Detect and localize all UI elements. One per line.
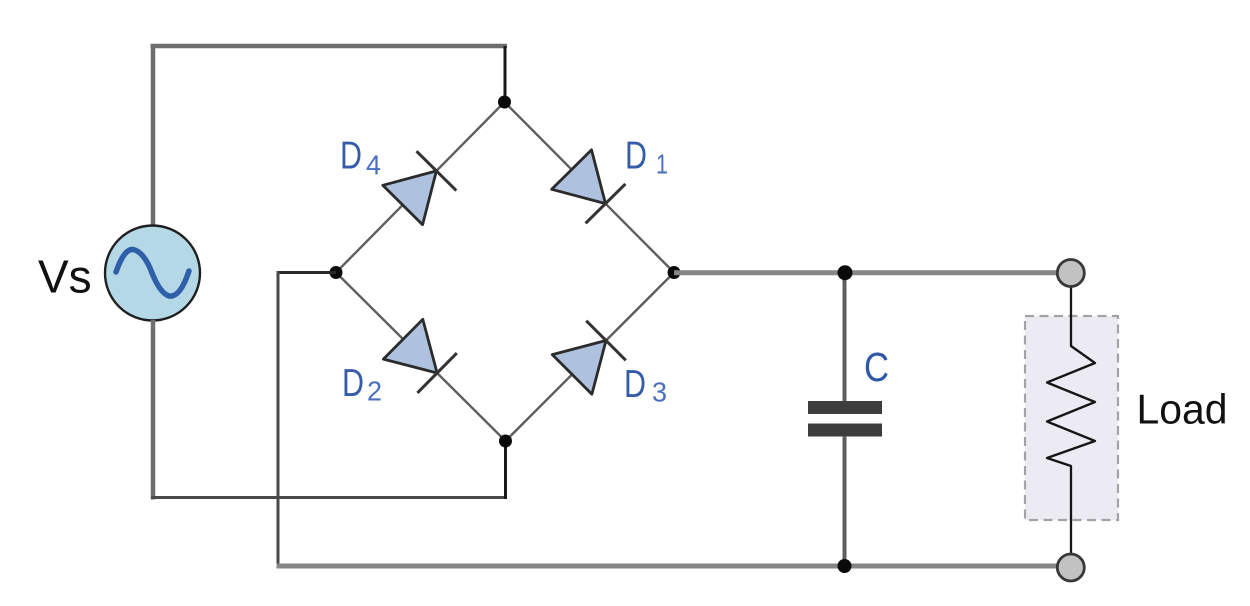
wire bridge diagonal top-left (336, 102, 505, 273)
terminal bottom right (1057, 554, 1084, 581)
svg-text:D: D (625, 135, 647, 178)
resistor load zigzag (1047, 286, 1095, 554)
wire black drop from rail into top bridge node (504, 46, 507, 100)
svg-text:3: 3 (652, 377, 667, 408)
svg-text:D: D (624, 363, 646, 406)
node capacitor top junction (838, 265, 853, 280)
wire vertical up into bottom bridge node (504, 440, 507, 499)
node right bridge junction (668, 266, 681, 279)
svg-text:Vs: Vs (38, 251, 92, 303)
capacitor C bottom plate (808, 424, 882, 437)
wire bottom bus (277, 564, 1060, 569)
node bottom bridge junction (499, 435, 512, 448)
wire horizontal mid (Vs to bottom bridge node) (151, 496, 507, 499)
node capacitor bottom junction (838, 559, 852, 573)
diode D3 (552, 321, 626, 395)
capacitor C top plate (808, 401, 882, 414)
diode D2 (383, 319, 456, 393)
capacitor C bottom lead (843, 436, 847, 566)
wire left vertical from top rail to Vs source (151, 44, 156, 226)
svg-text:D: D (340, 135, 362, 178)
capacitor C top lead (843, 273, 847, 402)
voltage source Vs (105, 226, 200, 321)
wire top bus (right node to top terminal) (674, 270, 1060, 275)
svg-text:D: D (342, 362, 364, 405)
wire vertical down from left node corner (277, 271, 280, 566)
node left bridge junction (330, 266, 343, 279)
svg-text:2: 2 (367, 376, 382, 407)
wire bridge diagonal bottom-right (506, 273, 675, 442)
diode D4 (383, 151, 457, 225)
wire bridge diagonal bottom-left (336, 273, 506, 442)
terminal top right (1057, 260, 1084, 287)
wire Vs bottom vertical (151, 320, 156, 500)
svg-text:1: 1 (656, 149, 668, 180)
wire top rail horizontal (151, 44, 508, 49)
wire bridge diagonal top-right (505, 102, 675, 273)
svg-text:C: C (864, 344, 889, 390)
svg-text:4: 4 (366, 150, 381, 181)
svg-text:Load: Load (1137, 386, 1228, 433)
diode D1 (552, 150, 626, 223)
wire left node stub to corner (277, 271, 337, 274)
load dashed box (1025, 316, 1118, 520)
node top bridge junction (498, 96, 511, 109)
